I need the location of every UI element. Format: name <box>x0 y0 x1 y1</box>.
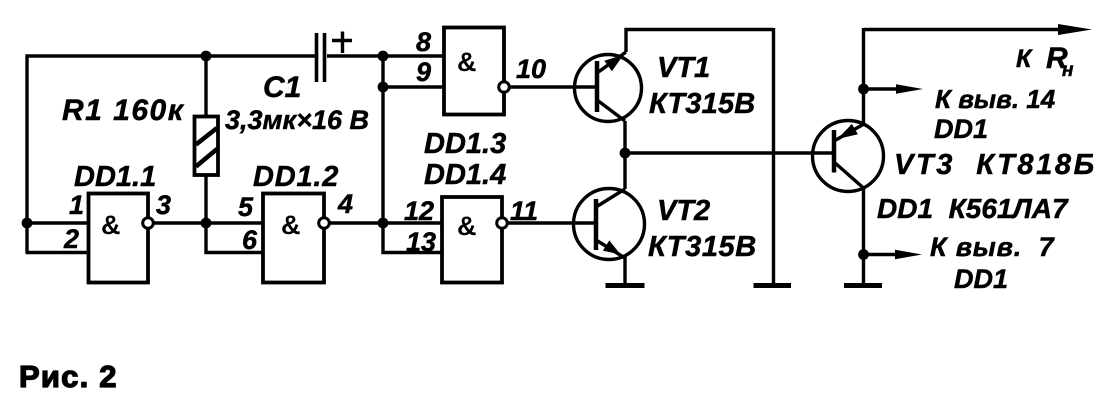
wire right rail down <box>772 28 775 283</box>
ground bar mid <box>754 283 792 288</box>
svg-text:C1: C1 <box>263 71 301 104</box>
nand gate DD1.4 <box>442 197 502 283</box>
wire left vertical feedback <box>25 55 28 253</box>
svg-text:К выв. 14: К выв. 14 <box>935 84 1056 114</box>
wire VT1 top rail <box>625 28 774 31</box>
wire VT3 collector down <box>862 186 865 283</box>
pin 10 inverter bubble DD1.3 <box>499 82 510 93</box>
node junction left feedback <box>22 218 33 229</box>
wire DD1.4 output to VT2 base <box>507 221 597 224</box>
transistor VT2 <box>574 189 645 260</box>
svg-text:13: 13 <box>406 227 436 257</box>
node junction pin9 <box>378 82 389 93</box>
wire pin5 input DD1.2 <box>206 221 265 224</box>
pin 3 inverter bubble DD1.1 <box>143 218 154 229</box>
node junction main line <box>378 218 389 229</box>
node junction VT1-VT2 <box>620 148 631 159</box>
svg-text:10: 10 <box>516 54 546 84</box>
svg-text:R1 160к: R1 160к <box>62 94 185 127</box>
node junction top rail <box>378 51 389 62</box>
wire output arrow K Rn <box>864 24 1093 35</box>
wire pin2 input DD1.1 <box>26 251 89 254</box>
wire VT2 emitter down <box>623 256 626 283</box>
wire pin9 input DD1.3 <box>383 85 444 88</box>
node junction R1 bottom <box>201 218 212 229</box>
svg-text:12: 12 <box>404 196 434 226</box>
pin 4 inverter bubble DD1.2 <box>319 218 330 229</box>
wire VT1 emitter up <box>624 28 627 52</box>
svg-text:2: 2 <box>63 224 79 254</box>
svg-text:4: 4 <box>337 189 353 219</box>
svg-text:DD1.4: DD1.4 <box>424 159 506 191</box>
pin 11 inverter bubble DD1.4 <box>497 218 508 229</box>
svg-text:К: К <box>1016 45 1033 73</box>
svg-text:К выв. 7: К выв. 7 <box>930 232 1056 262</box>
wire DD1.2 output <box>329 221 384 224</box>
svg-text:DD1.1: DD1.1 <box>74 161 156 193</box>
svg-text:Рис. 2: Рис. 2 <box>19 359 118 394</box>
svg-text:&: & <box>101 210 121 240</box>
capacitor C1 <box>317 32 353 83</box>
svg-text:&: & <box>281 210 301 240</box>
wire pin1 input DD1.1 <box>27 221 89 224</box>
svg-text:&: & <box>457 47 477 77</box>
wire mid to VT3 base <box>625 151 833 154</box>
svg-text:VT1: VT1 <box>657 52 710 84</box>
svg-text:6: 6 <box>242 225 258 255</box>
svg-text:DD1: DD1 <box>954 264 1008 294</box>
node junction pin14 <box>858 84 869 95</box>
svg-text:&: & <box>457 211 477 241</box>
wire pin13 branch DD1.4 <box>383 221 442 253</box>
transistor VT1 <box>575 52 642 122</box>
svg-text:КТ315В: КТ315В <box>649 88 755 120</box>
svg-text:DD1 К561ЛА7: DD1 К561ЛА7 <box>877 193 1069 224</box>
ground VT3 <box>844 283 882 288</box>
ground VT2 <box>606 283 645 288</box>
wire arrow to pin7 <box>864 250 923 260</box>
svg-text:VT3 КТ818Б: VT3 КТ818Б <box>894 149 1097 181</box>
svg-text:DD1: DD1 <box>934 114 988 144</box>
svg-text:КТ315В: КТ315В <box>648 231 757 263</box>
node junction pin7 <box>858 249 869 260</box>
svg-text:8: 8 <box>416 27 431 57</box>
svg-text:9: 9 <box>416 57 431 87</box>
wire top rail right <box>327 54 444 57</box>
wire DD1.1 output <box>153 221 207 224</box>
wire VT3 emitter up <box>862 28 865 125</box>
node junction R1 top <box>201 51 212 62</box>
wire pin6 branch DD1.2 <box>206 221 265 253</box>
svg-text:VT2: VT2 <box>657 195 710 227</box>
resistor R1 <box>195 56 219 223</box>
wire pin12 input DD1.4 <box>383 221 442 224</box>
svg-text:3: 3 <box>156 190 171 220</box>
wire top rail left <box>26 54 316 57</box>
nand gate DD1.2 <box>263 194 324 283</box>
wire arrow to pin14 <box>864 84 924 94</box>
wire VT1 collector down <box>623 121 626 153</box>
svg-text:11: 11 <box>510 196 538 226</box>
svg-text:DD1.3: DD1.3 <box>424 128 506 160</box>
transistor VT3 <box>813 121 884 192</box>
wire DD1.3 output to VT1 base <box>509 85 598 88</box>
nand gate DD1.1 <box>89 194 149 283</box>
svg-text:DD1.2: DD1.2 <box>253 161 339 193</box>
svg-text:н: н <box>1062 60 1074 81</box>
wire VT2 collector up <box>596 151 625 207</box>
nand gate DD1.3 <box>444 28 504 115</box>
svg-text:5: 5 <box>238 192 254 222</box>
svg-text:3,3мк×16 В: 3,3мк×16 В <box>225 105 369 135</box>
svg-text:1: 1 <box>69 190 84 220</box>
wire center vertical <box>381 56 384 223</box>
